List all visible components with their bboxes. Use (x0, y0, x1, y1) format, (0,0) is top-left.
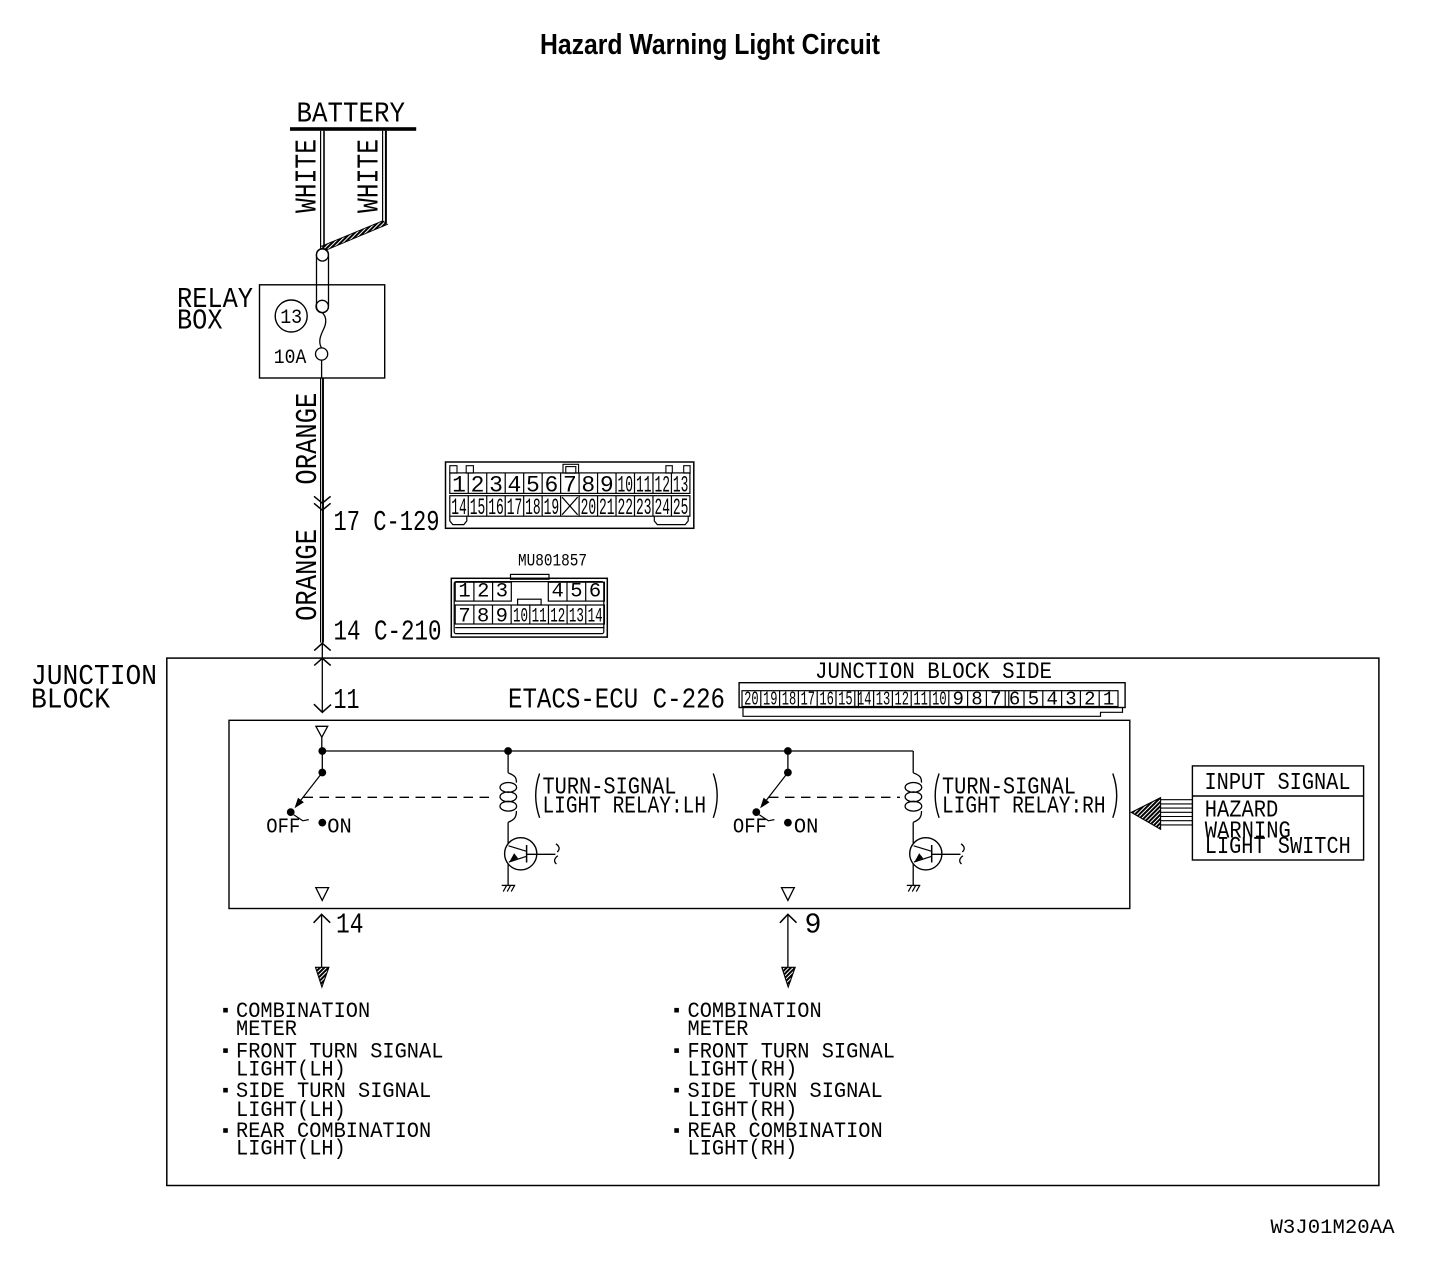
svg-text:8: 8 (971, 688, 982, 710)
svg-text:17: 17 (507, 495, 523, 521)
connector crossing mark, pin 17 of C-129 (314, 496, 440, 539)
wire splice (diagonal, hatched) (322, 221, 388, 251)
svg-text:INPUT SIGNAL: INPUT SIGNAL (1205, 770, 1351, 797)
svg-text:LIGHT RELAY:RH: LIGHT RELAY:RH (942, 794, 1106, 821)
label turn-signal light relay RH (935, 774, 1117, 821)
svg-text:1: 1 (1103, 688, 1114, 710)
svg-text:13: 13 (569, 605, 584, 628)
svg-text:BLOCK: BLOCK (31, 684, 111, 717)
svg-text:7: 7 (458, 605, 470, 628)
svg-text:5: 5 (570, 580, 582, 603)
output wire pin 14 (314, 908, 364, 987)
output list RH loads (674, 998, 895, 1162)
relay actuation dashed link RH (769, 796, 900, 798)
ground RH (907, 885, 921, 891)
svg-text:2: 2 (1084, 688, 1095, 710)
svg-text:14: 14 (588, 605, 603, 628)
svg-text:6: 6 (589, 580, 601, 603)
svg-text:19: 19 (544, 495, 560, 521)
svg-text:WHITE: WHITE (291, 139, 326, 213)
input signal box: HAZARD WARNING LIGHT SWITCH (1192, 766, 1363, 861)
wire exit arrow RH (pin 9) (782, 888, 795, 901)
connector C-210 (14-pin) (451, 574, 607, 637)
svg-text:25: 25 (673, 495, 689, 521)
svg-text:21: 21 (599, 495, 615, 521)
svg-text:LIGHT RELAY:LH: LIGHT RELAY:LH (543, 794, 707, 821)
node at LH relay coil (504, 747, 512, 755)
ETACS-ECU box (229, 720, 1130, 908)
svg-text:12: 12 (895, 688, 910, 710)
wire WHITE (battery left feed) (291, 131, 326, 249)
svg-text:JUNCTION BLOCK SIDE: JUNCTION BLOCK SIDE (815, 659, 1052, 685)
svg-text:6: 6 (1009, 688, 1020, 710)
svg-text:ETACS-ECU C-226: ETACS-ECU C-226 (508, 683, 725, 716)
svg-text:9: 9 (805, 908, 822, 941)
svg-text:4: 4 (551, 580, 563, 603)
turn-signal light relay coil RH (905, 773, 922, 844)
svg-text:14 C-210: 14 C-210 (334, 616, 442, 649)
svg-text:11: 11 (532, 605, 547, 628)
svg-text:17: 17 (801, 688, 816, 710)
svg-text:20: 20 (581, 495, 597, 521)
svg-text:5: 5 (1028, 688, 1039, 710)
ground LH (502, 885, 516, 891)
svg-text:2: 2 (477, 580, 489, 603)
relay actuation dashed link LH (304, 796, 495, 798)
svg-text:LIGHT(RH): LIGHT(RH) (688, 1136, 798, 1162)
svg-text:17 C-129: 17 C-129 (334, 506, 440, 539)
svg-text:7: 7 (990, 688, 1001, 710)
hazard switch contact LH (OFF/ON) (266, 751, 352, 839)
svg-text:24: 24 (654, 495, 670, 521)
svg-text:WHITE: WHITE (353, 139, 388, 213)
svg-text:Hazard Warning Light Circuit: Hazard Warning Light Circuit (540, 29, 880, 61)
junction block box (31, 658, 1379, 1185)
svg-text:14: 14 (336, 908, 364, 941)
svg-text:15: 15 (470, 495, 486, 521)
svg-text:ON: ON (327, 815, 352, 839)
connector C-129 (25-pin) (446, 462, 694, 528)
svg-text:14: 14 (451, 495, 467, 521)
svg-text:12: 12 (550, 605, 565, 628)
output list LH loads (223, 998, 443, 1162)
svg-text:11: 11 (334, 684, 360, 717)
wire exit arrow LH (pin 14) (316, 888, 329, 901)
svg-text:10: 10 (513, 605, 528, 628)
svg-text:7: 7 (563, 472, 577, 498)
transistor RH (910, 838, 965, 886)
svg-text:OFF: OFF (266, 815, 300, 839)
turn-signal light relay coil LH (500, 773, 517, 844)
node at LH switch (318, 747, 326, 755)
svg-text:20: 20 (744, 688, 759, 710)
connector crossing mark, pin 14 of C-210 (314, 616, 441, 651)
svg-text:13: 13 (280, 307, 302, 330)
hazard switch contact RH (OFF/ON) (733, 751, 819, 839)
svg-text:18: 18 (782, 688, 797, 710)
svg-text:ORANGE: ORANGE (291, 393, 326, 485)
svg-text:22: 22 (618, 495, 634, 521)
svg-text:ON: ON (794, 815, 819, 839)
svg-text:19: 19 (763, 688, 778, 710)
svg-text:W3J01M20AA: W3J01M20AA (1271, 1217, 1396, 1240)
svg-text:9: 9 (496, 605, 508, 628)
svg-text:11: 11 (913, 688, 928, 710)
svg-text:LIGHT(LH): LIGHT(LH) (236, 1136, 346, 1162)
hazard switch signal arrow (hatched) (1131, 798, 1192, 830)
svg-text:15: 15 (838, 688, 853, 710)
output wire pin 9 (780, 908, 822, 987)
node at RH switch (784, 747, 792, 755)
svg-text:10A: 10A (274, 347, 307, 370)
battery (290, 98, 416, 131)
wire bus (pin 11 to relay coils) (322, 751, 913, 773)
svg-text:LIGHT SWITCH: LIGHT SWITCH (1205, 834, 1351, 861)
label turn-signal light relay LH (536, 774, 718, 821)
wire ORANGE (relay box to C-129) (291, 378, 326, 643)
wire WHITE (battery right feed) (353, 131, 388, 223)
svg-text:OFF: OFF (733, 815, 767, 839)
svg-text:16: 16 (488, 495, 504, 521)
svg-text:14: 14 (857, 688, 872, 710)
svg-text:18: 18 (525, 495, 541, 521)
svg-text:4: 4 (1046, 688, 1057, 710)
svg-text:BOX: BOX (177, 304, 223, 337)
wire entry arrow into ECU (pin 11) (316, 726, 328, 751)
svg-text:16: 16 (819, 688, 834, 710)
svg-text:ORANGE: ORANGE (291, 529, 326, 621)
svg-text:BATTERY: BATTERY (297, 98, 406, 131)
relay box (177, 283, 385, 378)
svg-text:10: 10 (932, 688, 947, 710)
svg-text:23: 23 (636, 495, 652, 521)
fuse number circle 13 (275, 300, 307, 332)
svg-text:1: 1 (458, 580, 470, 603)
svg-text:8: 8 (477, 605, 489, 628)
connector C-226 (junction block side, 20-pin) (739, 683, 1125, 717)
svg-text:3: 3 (1065, 688, 1076, 710)
fuse (fusible link, relay box fuse 13) (316, 249, 329, 378)
svg-text:13: 13 (876, 688, 891, 710)
svg-text:MU801857: MU801857 (518, 552, 587, 572)
wire to ETACS-ECU pin 11 (314, 643, 360, 717)
svg-text:3: 3 (496, 580, 508, 603)
svg-text:9: 9 (952, 688, 963, 710)
transistor LH (505, 838, 560, 886)
wire ORANGE (C-129 to C-210) (291, 529, 326, 621)
